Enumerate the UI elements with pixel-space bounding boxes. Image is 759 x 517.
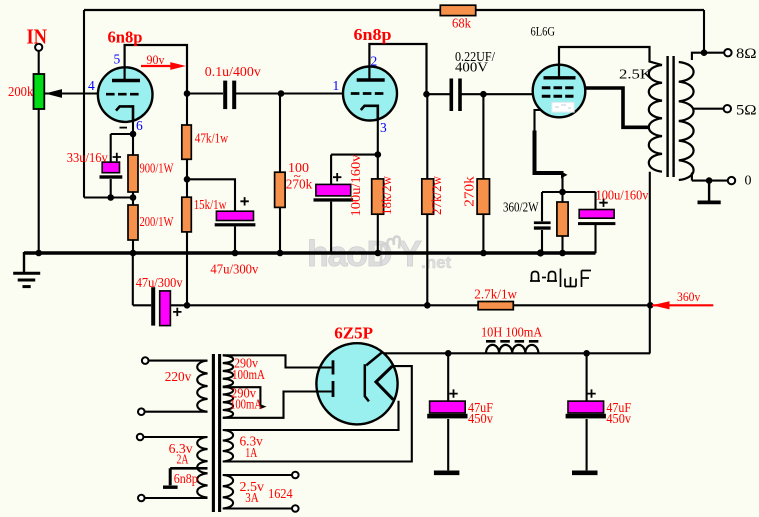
node 18k at rail [375,250,382,257]
watermark haoDIY.net [307,233,452,274]
capacitor 100u/160v V2 bypass [314,184,354,201]
terminal 2.5v top [292,472,299,479]
PT secondary 2.5v3A winding [223,475,233,509]
node OPT 0 tap [706,177,713,184]
svg-text:6Z5P: 6Z5P [334,324,373,343]
svg-text:27k/2w: 27k/2w [429,176,444,215]
potentiometer 200k [34,74,45,109]
wire 220v bottom lead [145,411,208,413]
capacitor 47u/300v series horizontal [151,287,170,325]
plus 100u V2 [333,173,341,181]
wire OPT secondary top lead [692,53,704,60]
wire HV top lead to plate1 [223,355,332,367]
6L6G cathode wire end [561,171,568,178]
OPT primary winding 2.5K [649,65,662,172]
plus 47u series [173,308,181,316]
wire 220v top lead [149,360,208,362]
node choke input [445,350,452,357]
capacitor 47u/300v decoupling [215,211,256,226]
HV center tap arrow [260,404,267,409]
tube 6L6G envelope [533,65,586,118]
svg-text:400V: 400V [455,59,488,74]
wire heater 6.3v1A bottom lead [223,366,412,461]
svg-text:900/1W: 900/1W [140,161,174,176]
terminal 220v bottom [138,408,145,415]
wire 900/200 junction [132,192,134,205]
6Z5P plate lead stubs [317,368,332,392]
OPT secondary winding [679,62,694,180]
wire feedback to cathode junction [84,196,133,198]
plus 47uF-1 [449,389,457,397]
resistor 270k [477,179,489,214]
PT secondary HV 290-0-290 winding [223,355,233,418]
V1 plate [112,79,140,82]
V1 grid dashes [106,93,140,96]
wire 6.3v2A bottom lead [145,497,208,499]
svg-text:450v: 450v [606,411,631,426]
svg-text:68k: 68k [452,15,471,30]
tube 6Z5P envelope [316,343,397,424]
6L6G screen dashes [542,86,574,89]
wire tap ground stem [169,468,172,485]
svg-text:IN: IN [27,25,48,49]
6L6G watermark box [552,102,574,112]
minus V1 cathode [120,127,128,129]
6Z5P filament chevron [376,366,393,400]
svg-text:100mA: 100mA [232,367,265,382]
svg-text:270k: 270k [461,176,476,207]
svg-text:15k/1w: 15k/1w [194,197,227,212]
node B+ at 15k [184,302,191,309]
capacitor 100u/160v 6L6G bypass [578,210,615,226]
wire 6.3v2A top lead [143,436,207,438]
capacitor 47uF/450v second [566,401,606,418]
PT core [213,354,219,512]
resistor 15k/1w [182,197,192,232]
6Z5P cathode [365,352,383,402]
terminal 2.5v bottom [292,505,299,512]
node 200/1W at rail [130,250,137,257]
ground 47uF-1 [434,470,460,475]
node V1 plate/47k/0.1u [184,90,191,97]
6L6G grid dashes [542,95,574,98]
terminal 220v top [142,357,149,364]
svg-text:5: 5 [114,51,121,66]
svg-text:2.5K: 2.5K [619,67,652,82]
OPT core [668,56,674,177]
svg-text:220v: 220v [165,369,192,384]
svg-text:6: 6 [136,118,143,133]
svg-text:47k/1w: 47k/1w [195,131,229,146]
wire 33u top link [111,134,133,198]
wire OPT 0 tap [692,173,728,181]
6L6G plate [544,76,576,79]
terminal 6.3v2A top [137,434,144,441]
wire cathode node left to cap [542,192,563,253]
plus 100u 6L6G [599,199,607,207]
node feedback injection [130,194,137,201]
svg-text:2: 2 [371,53,378,68]
svg-text:6n8p: 6n8p [174,471,198,486]
resistor 68k [440,5,475,15]
scribble 0-01 uF handwriting [530,269,591,288]
V2 plate [357,78,385,81]
capacitor 33u/16v [100,162,123,179]
wire 8ohm drop from rail [703,10,705,53]
wire 6L6G plate to OPT [559,47,662,78]
svg-text:1: 1 [333,78,340,93]
node 270k-V2 at rail [277,250,284,257]
wire input jack to pot [38,51,40,74]
wire OPT ground stem [708,181,710,201]
wire HV bottom lead to plate2 [223,392,332,418]
terminal IN jack [35,44,42,51]
resistor 900/1W [128,155,138,192]
node 360v [647,302,654,309]
wire 200/1W to ground rail [132,240,134,253]
wire cathode node drops [561,173,563,253]
wire pot bottom to ground rail [38,109,40,253]
6Z5P plate 2 [332,381,335,397]
svg-text:47u/300v: 47u/300v [136,275,183,290]
svg-text:1A: 1A [245,445,257,460]
V2 plate lead [368,67,370,81]
node 47k/15k junction [184,176,191,183]
svg-text:4: 4 [88,78,95,93]
svg-text:360/2W: 360/2W [503,199,539,214]
V1 plate lead [123,67,125,81]
wire OPT 5ohm tap [694,108,724,110]
pot wiper arrow [45,89,62,98]
6Z5P plate 1 [332,360,335,374]
terminal 5 ohm [724,105,731,112]
wire 6L6G screen tap thick [586,88,650,127]
wire top feedback rail [84,9,704,11]
ground 47uF-2 [572,470,598,475]
wire B+ feed line [133,253,650,305]
arrow 360v [652,301,713,309]
wire 2.5v bottom lead [223,507,292,509]
svg-text:0.1u/400v: 0.1u/400v [205,64,261,79]
node 8ohm output [701,49,708,56]
node B+ at 27k [424,302,431,309]
wire 0.22 cap links [427,93,534,95]
choke 10H 100mA winding [486,345,538,353]
svg-text:360v: 360v [677,289,701,304]
wire V2 cathode bypass [331,155,378,253]
resistor 27k/2w [422,179,434,214]
tube V2 6n8p envelope [343,67,397,121]
svg-text:3A: 3A [245,490,259,505]
node V2 plate/27k/0.22 [423,91,430,98]
wire V2 plate loop [369,44,426,94]
node 33u bottom [107,194,114,201]
wire 2.5v top lead [223,474,292,476]
plus 33u [113,153,121,161]
resistor 2.7k/1w [478,302,513,310]
capacitor 47uF/450v first [427,401,467,418]
svg-text:8Ω: 8Ω [736,46,757,62]
ground rail main [24,251,596,254]
capacitor 0.22UF/400V [450,79,462,112]
6L6G plate lead [558,65,560,78]
PT secondary 6.3v1A winding [223,430,233,462]
V2 cathode [361,106,378,120]
capacitor 360/2W bypass plain [534,221,551,229]
resistor 200/1W [128,205,138,240]
wire feedback left drop [83,10,85,198]
wire coupling cap 0.1u [187,92,343,94]
svg-text:5Ω: 5Ω [736,103,757,119]
wire 6.3v2A center tap [170,467,207,470]
svg-text:2.7k/1w: 2.7k/1w [474,286,517,301]
resistor 47k/1w [182,125,192,159]
node 0.22/6L6G grid/270k [480,91,487,98]
resistor 360/2W [557,202,568,236]
svg-text:6L6G: 6L6G [531,24,556,39]
svg-text:3: 3 [380,120,387,135]
svg-text:100u/160v: 100u/160v [348,154,363,216]
svg-text:2A: 2A [177,451,189,466]
resistor 100~270k [275,172,286,207]
wire 47k branch [186,94,188,306]
wire 270k grid leak 6L6G [482,94,484,253]
plus 47u decoupling [240,197,248,205]
V1 cathode [116,106,133,121]
node 0.1u/V2 grid [278,90,285,97]
resistor 18k/2w [372,179,384,214]
ground 6.3v center tap [163,486,178,489]
wire 8ohm node to terminal [704,52,724,54]
wire HV center tap [223,387,261,406]
terminal 8 ohm [724,49,731,56]
svg-text:.net: .net [421,253,452,272]
wire V1 cathode lead [132,106,134,155]
svg-text:90v: 90v [147,52,165,67]
wire 27k branch [426,94,428,305]
node V2 cathode [375,151,382,158]
wire ground rail left drop [23,252,25,273]
svg-text:450v: 450v [468,411,493,426]
svg-text:10H 100mA: 10H 100mA [481,324,543,339]
wire 47uF-1 leads [447,353,449,470]
wire heater 6.3v1A top lead [223,401,399,430]
svg-text:100mA: 100mA [230,396,262,411]
svg-text:6n8p: 6n8p [354,25,392,44]
svg-text:100u/160v: 100u/160v [596,188,649,203]
wire V1 plate to 47k node [125,45,187,94]
node 360 cap at rail [537,249,544,256]
node 270k-6L6G at rail [480,250,487,257]
node 6L6G cathode [559,189,566,196]
terminal 0 ohm [728,177,735,184]
svg-text:1624: 1624 [268,486,293,501]
tube V1 6n8p envelope [98,67,153,122]
node pot at rail [35,250,42,257]
arrow 90v [141,62,186,70]
svg-text:6n8p: 6n8p [108,28,143,47]
wire V2 grid leak 270k [279,94,281,254]
capacitor 0.1u/400v [223,81,236,110]
wire 6L6G cathode thick [535,131,564,174]
svg-text:47u/300v: 47u/300v [210,262,258,277]
wire PSU B+ rail [381,352,650,354]
wire OPT primary bottom to 360v to PSU [649,172,651,354]
svg-text:270k: 270k [286,176,313,191]
choke core dashes [486,340,538,343]
V2 grid dashes [351,92,385,95]
svg-text:200k: 200k [8,84,34,99]
svg-text:18k/2w: 18k/2w [379,176,394,215]
node 47u decoupling at rail [232,250,239,257]
node choke output [583,350,590,357]
svg-text:0: 0 [745,173,752,188]
svg-text:33u/16v: 33u/16v [67,150,108,165]
wire V2 cathode lead [377,106,379,253]
PT primary 6.3v2A winding [197,437,207,498]
wire cathode node right to 100u [563,192,596,253]
node V1 cathode [130,131,137,138]
wire 47uF-2 leads [586,353,588,470]
wire 6L6G cathode exit [535,110,543,132]
PT primary 220v winding [197,361,207,412]
ground input (3-bar) [13,273,40,286]
wire pot wiper to grid V1 [45,92,98,94]
wire decoupling cap 47u [187,179,235,253]
plus 47uF-2 [587,389,595,397]
terminal 6.3v2A bottom [138,495,145,502]
svg-text:200/1W: 200/1W [140,214,174,229]
ground OPT secondary [698,200,721,204]
node 360 resistor at rail [559,250,566,257]
